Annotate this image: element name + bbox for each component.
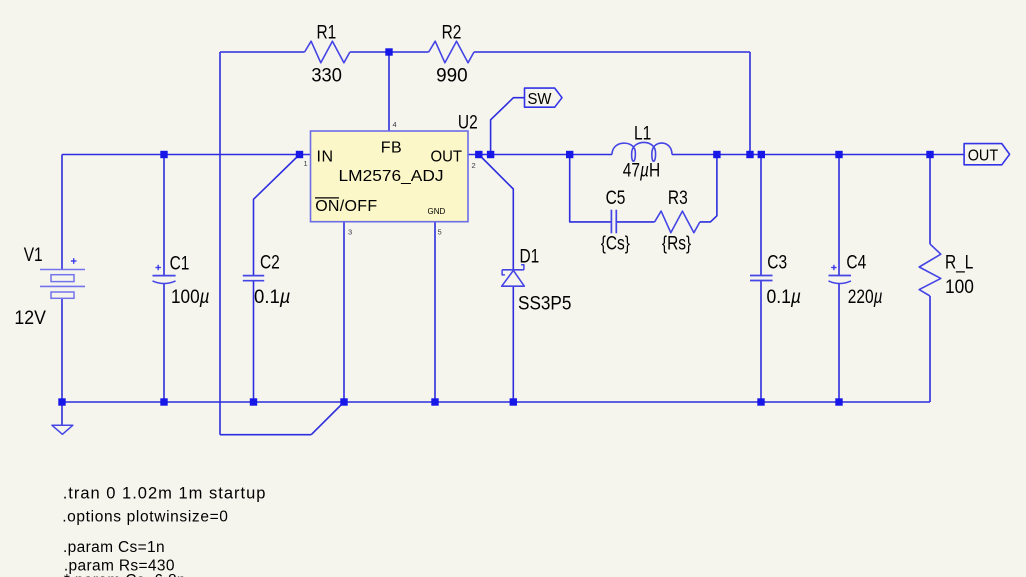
- wire R_L top lead: [929, 155, 931, 245]
- pin number 3: [348, 228, 352, 237]
- label R1: [311, 21, 342, 86]
- svg-text:330: 330: [311, 64, 342, 86]
- wire C3 top lead: [760, 155, 762, 276]
- wire U2 pin5 to bus: [434, 222, 436, 402]
- wire R_L bottom lead: [929, 296, 931, 402]
- wire input net V1 to IN pin: [62, 154, 311, 156]
- label U2: [458, 111, 478, 133]
- wire left vertical from R1 to ground jog: [220, 52, 344, 435]
- resistor R_L load: [919, 244, 941, 296]
- label C2: [254, 251, 291, 308]
- wire D1 branch diagonal: [479, 155, 514, 270]
- svg-text:100: 100: [945, 275, 974, 297]
- wire V1 top lead: [61, 155, 63, 270]
- flag OUT: [964, 144, 1010, 165]
- node R2 tap: [746, 151, 753, 158]
- svg-text:SW: SW: [528, 91, 553, 108]
- directive .tran: [63, 485, 267, 503]
- resistor R2: [429, 41, 474, 63]
- resistor R1: [305, 41, 350, 63]
- svg-text:4: 4: [393, 120, 397, 129]
- node gnd C4: [835, 398, 842, 405]
- svg-text:R2: R2: [442, 21, 462, 43]
- voltage source V1 battery: [40, 258, 85, 298]
- node IN pin: [296, 151, 303, 158]
- label SW text: [528, 91, 553, 108]
- node gnd V1: [58, 398, 65, 405]
- svg-text:{Rs}: {Rs}: [662, 232, 691, 254]
- label L1: [623, 122, 660, 181]
- node gnd C2: [250, 398, 257, 405]
- svg-text:C5: C5: [606, 186, 626, 208]
- ground symbol: [52, 402, 73, 434]
- wire C4 bottom lead: [838, 284, 840, 402]
- node OUT pin: [475, 151, 482, 158]
- label R2: [436, 21, 468, 86]
- svg-text:D1: D1: [520, 245, 540, 267]
- capacitor C1 polarized: [153, 265, 176, 284]
- directive .param Rs: [64, 558, 175, 575]
- svg-text:IN: IN: [317, 149, 334, 166]
- svg-text:LM2576_ADJ: LM2576_ADJ: [339, 168, 444, 185]
- svg-text:SS3P5: SS3P5: [518, 292, 572, 314]
- svg-text:C4: C4: [846, 251, 866, 273]
- svg-text:.param Cs=1n: .param Cs=1n: [63, 539, 165, 556]
- pin label ON/OFF: [315, 198, 377, 215]
- wire C1 bottom lead: [163, 284, 165, 403]
- label R3: [662, 186, 691, 253]
- node snubber right: [713, 151, 720, 158]
- wire output net OUT pin to L1: [468, 154, 612, 156]
- svg-text:0.1µ: 0.1µ: [767, 285, 802, 307]
- wire C1 top lead: [163, 155, 165, 276]
- flag SW: [525, 88, 563, 107]
- pin number 2: [472, 161, 476, 170]
- svg-text:C2: C2: [260, 251, 280, 273]
- resistor R3 snubber: [655, 211, 700, 233]
- wire C2 top diagonal to IN node: [254, 155, 300, 276]
- directive .options: [62, 509, 228, 526]
- pin label OUT: [431, 149, 463, 166]
- svg-text:FB: FB: [381, 140, 402, 157]
- wire U2 pin3 to bus: [343, 222, 345, 402]
- label LM2576_ADJ: [339, 168, 444, 185]
- node SW tap: [487, 151, 494, 158]
- svg-text:L1: L1: [634, 122, 651, 144]
- node gnd D1: [510, 398, 517, 405]
- node gnd C3: [757, 398, 764, 405]
- svg-text:OUT: OUT: [968, 148, 999, 165]
- label V1: [14, 243, 46, 328]
- pin number 4: [393, 120, 397, 129]
- svg-text:47µH: 47µH: [623, 159, 660, 181]
- svg-text:0.1µ: 0.1µ: [254, 285, 291, 307]
- capacitor C4 polarized: [829, 265, 852, 284]
- svg-text:GND: GND: [428, 207, 446, 216]
- node gnd pin3: [340, 398, 347, 405]
- wire output net L1 to OUT flag: [672, 154, 964, 156]
- svg-text:12V: 12V: [14, 306, 46, 328]
- capacitor C3: [750, 276, 773, 281]
- svg-text:C1: C1: [170, 252, 190, 274]
- label C5: [601, 186, 630, 253]
- node C4 top: [835, 151, 842, 158]
- svg-text:.options plotwinsize=0: .options plotwinsize=0: [62, 509, 228, 526]
- capacitor C5 snubber: [611, 210, 616, 234]
- svg-text:R_L: R_L: [945, 251, 974, 274]
- diode D1 schottky: [502, 265, 525, 287]
- svg-text:R3: R3: [668, 186, 688, 208]
- node FB divider: [385, 48, 392, 55]
- node R_L top: [926, 151, 933, 158]
- capacitor C2: [243, 276, 264, 281]
- label D1: [518, 245, 572, 314]
- wire V1 bottom lead: [61, 298, 63, 402]
- svg-text:1: 1: [304, 159, 308, 168]
- svg-text:2: 2: [472, 161, 476, 170]
- node gnd C1: [160, 398, 167, 405]
- svg-text:C3: C3: [767, 251, 787, 273]
- wire top net FB-divider: [220, 51, 750, 53]
- svg-text:990: 990: [436, 64, 468, 86]
- directive commented param: [64, 572, 186, 577]
- svg-text:.tran 0 1.02m 1m startup: .tran 0 1.02m 1m startup: [63, 485, 267, 503]
- svg-text:ON/OFF: ON/OFF: [315, 198, 377, 215]
- pin label IN: [317, 149, 334, 166]
- svg-text:U2: U2: [458, 111, 478, 133]
- svg-text:3: 3: [348, 228, 352, 237]
- pin label GND: [428, 207, 446, 216]
- label OUT text: [968, 148, 999, 165]
- wire snubber C5 to R3: [616, 221, 654, 223]
- label C1: [170, 252, 210, 308]
- svg-text:*.param Cs=6.8n: *.param Cs=6.8n: [64, 572, 186, 577]
- pin label FB: [381, 140, 402, 157]
- svg-text:R1: R1: [317, 21, 337, 43]
- pin number 1: [304, 159, 308, 168]
- wire C4 top lead: [838, 155, 840, 276]
- svg-text:5: 5: [438, 228, 442, 237]
- label R_L: [945, 251, 974, 298]
- node C1 top: [160, 151, 167, 158]
- wire ground bus: [62, 401, 930, 403]
- label C4: [846, 251, 882, 308]
- inductor L1: [612, 142, 672, 161]
- wire snubber right jog to L1 node: [700, 155, 717, 222]
- wire snubber left branch: [570, 155, 612, 222]
- svg-text:V1: V1: [24, 243, 43, 265]
- IC U2 LM2576_ADJ box: [311, 131, 469, 222]
- node C3 top: [758, 151, 765, 158]
- wire pin4 FB vertical: [388, 52, 390, 131]
- wire SW flag lead: [491, 98, 525, 155]
- svg-text:220µ: 220µ: [848, 285, 883, 307]
- node gnd pin5: [431, 398, 438, 405]
- svg-text:{Cs}: {Cs}: [601, 232, 630, 254]
- directive .param Cs: [63, 539, 165, 556]
- svg-text:OUT: OUT: [431, 149, 463, 166]
- wire C3 bottom lead: [760, 281, 762, 403]
- wire R2 right tap vertical: [749, 52, 751, 155]
- svg-text:100µ: 100µ: [171, 285, 210, 307]
- node snubber left: [566, 151, 573, 158]
- wire D1 bottom lead: [512, 286, 514, 402]
- label C3: [767, 251, 802, 308]
- pin number 5: [438, 228, 442, 237]
- wire C2 bottom lead: [253, 281, 255, 402]
